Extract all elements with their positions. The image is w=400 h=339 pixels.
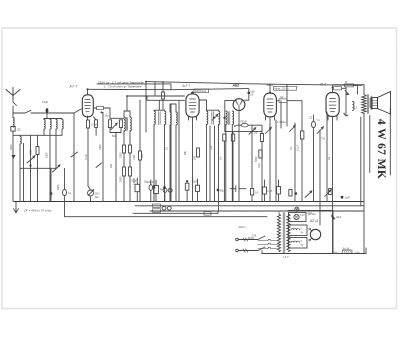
wire speaker leads — [371, 97, 372, 109]
resistor 50k — [120, 120, 123, 128]
wire branch x287 — [286, 85, 288, 127]
capacitor 50uF dot e — [217, 189, 220, 192]
capacitor IF1 c — [123, 167, 126, 176]
junction blob left — [11, 155, 15, 159]
capacitor IF1 b — [129, 145, 132, 153]
wire AL4 pins — [328, 116, 337, 202]
wire branch x74 — [73, 113, 75, 202]
detector coil c — [226, 111, 227, 202]
capacitor IF1 d — [129, 167, 132, 176]
trimmer cap C-t1 — [27, 156, 35, 163]
IF2 core — [159, 112, 160, 125]
wire primary top — [271, 211, 279, 249]
wire branch x252 — [251, 125, 253, 188]
capacitor box h — [289, 190, 292, 197]
svg-text:4V: 4V — [301, 245, 304, 247]
wire OT primary bottom B+ — [363, 114, 365, 254]
capacitor box right — [329, 189, 332, 195]
wire branch x210 — [209, 126, 211, 202]
wire branch x218 — [218, 125, 220, 212]
resistor heater b — [153, 209, 161, 212]
capacitor 500pF dot — [248, 92, 250, 94]
wire screen line top — [88, 89, 249, 90]
capacitor cylinder 1m — [63, 189, 67, 195]
resistor 240 branch — [197, 148, 200, 157]
svg-text:A F 7: A F 7 — [182, 84, 191, 88]
svg-text:3000: 3000 — [57, 184, 60, 190]
IF transformer 1 coil a — [124, 117, 125, 131]
terminal box left — [11, 127, 15, 132]
mains lead upper — [239, 239, 259, 241]
power transformer core — [283, 213, 285, 254]
wire power right side — [332, 211, 334, 254]
coil bank 1 — [44, 119, 45, 136]
wire branch x23 — [23, 143, 25, 201]
coil bank 3 — [56, 119, 57, 169]
label box 220x15mA — [194, 89, 209, 93]
resistor 100 on plate row — [97, 106, 104, 109]
svg-text:50µF: 50µF — [132, 180, 138, 183]
potentiometer 1,5 arrow — [249, 128, 256, 135]
svg-text:5000: 5000 — [255, 156, 258, 162]
choke Dr — [345, 84, 354, 87]
IF2 right coil b — [176, 112, 177, 202]
svg-text:1m: 1m — [68, 191, 72, 195]
trimmer tone — [317, 127, 323, 134]
IF transformer 3 coil a — [207, 111, 208, 202]
capacitor box 0,25 — [263, 187, 267, 194]
IF1 core — [127, 118, 128, 131]
resistor 0,5 — [109, 120, 112, 128]
capacitor box d — [185, 183, 189, 190]
resistor heater a — [153, 204, 161, 207]
wire branch x146 — [145, 82, 147, 132]
mains lead lower — [239, 250, 259, 252]
wire branch x320 — [319, 130, 321, 202]
wire coil row feed — [44, 113, 62, 119]
resistor under v1 b — [95, 120, 98, 128]
svg-text:AB2: AB2 — [232, 83, 240, 87]
potentiometer volume — [88, 190, 94, 196]
wire branch x346 — [345, 87, 347, 116]
capacitor horizontal f — [230, 186, 246, 192]
wire branch x327 — [326, 112, 328, 202]
svg-text:240: 240 — [194, 155, 197, 160]
label box Mess — [274, 86, 297, 90]
power transformer primary — [277, 214, 280, 252]
svg-text:ZF = 468 (x 73 kHz): ZF = 468 (x 73 kHz) — [23, 208, 51, 212]
capacitor anode V4 — [276, 100, 279, 102]
wire branch x214 — [214, 126, 216, 202]
switch mains b — [258, 247, 265, 251]
wire branch x281 — [280, 101, 282, 128]
coil bank 4 — [62, 119, 63, 136]
voltage selector taps — [258, 241, 268, 249]
wire bottom right corner — [365, 248, 367, 254]
svg-text:10µF: 10µF — [345, 197, 351, 200]
detector core — [228, 112, 229, 125]
fuse — [343, 250, 353, 254]
resistor x163 top — [162, 82, 164, 92]
svg-text:4,5 V: 4,5 V — [283, 256, 289, 259]
svg-text:125: 125 — [17, 129, 22, 132]
wire tuner horizontal — [13, 134, 62, 136]
tube V3 AB2 — [233, 99, 245, 111]
switch arm lower — [96, 163, 102, 168]
trimmer right V4 — [290, 125, 296, 131]
svg-text:1 · 17mA ohne gr. Tastenteile: 1 · 17mA ohne gr. Tastenteile — [104, 85, 142, 89]
svg-text:7,5k: 7,5k — [321, 138, 326, 141]
svg-text:500: 500 — [110, 163, 113, 168]
resistor 0,5 bottom — [251, 189, 254, 196]
wire plate V1 row — [94, 108, 111, 118]
IF transformer 3 coil b — [219, 111, 220, 125]
svg-text:2000: 2000 — [120, 176, 123, 182]
output transformer primary — [362, 95, 367, 114]
svg-text:50µF: 50µF — [192, 181, 198, 184]
wire branch x295 — [294, 123, 296, 202]
wire bus 2 — [135, 205, 364, 207]
speaker — [372, 92, 391, 115]
capacitor blocking dot — [50, 192, 53, 195]
wire selector down — [261, 251, 263, 254]
switch mains a — [258, 236, 265, 240]
svg-text:1500: 1500 — [133, 154, 136, 160]
tube V1 AF7 — [82, 95, 93, 117]
dial lamp — [295, 207, 299, 211]
wire heater mid line — [133, 211, 218, 213]
wire drop x155 — [154, 82, 156, 96]
svg-text:2000: 2000 — [120, 152, 123, 158]
IF transformer 2 coil a — [154, 111, 155, 186]
trimmer cap C-t2 — [53, 165, 60, 172]
svg-text:4µF: 4µF — [280, 96, 285, 99]
svg-text:S14: S14 — [252, 235, 257, 238]
resistor left column — [13, 118, 14, 128]
svg-text:AM2: AM2 — [266, 83, 274, 87]
tube V5 AL4 — [326, 93, 339, 117]
dial lamp pair on bus — [163, 188, 167, 192]
svg-text:15µF: 15µF — [42, 100, 49, 104]
svg-text:1000: 1000 — [99, 144, 102, 150]
capacitor box e — [196, 185, 200, 191]
wire branch x332 down — [332, 202, 334, 254]
output transformer core — [367, 95, 368, 114]
svg-text:4 W 67 MK: 4 W 67 MK — [375, 119, 388, 179]
capacitor cylinder c — [149, 185, 153, 191]
svg-text:7mA: 7mA — [84, 154, 88, 160]
wire IF1 tops — [124, 96, 130, 117]
resistor 5000 — [259, 150, 262, 158]
wire screen line top — [146, 82, 362, 86]
wire AVC branch — [170, 105, 172, 202]
wire branch x276 — [275, 120, 277, 202]
wire IF1 mids — [124, 131, 130, 167]
wire screen corner to V4 — [269, 84, 271, 92]
rule under note — [97, 84, 171, 90]
svg-text:3000: 3000 — [10, 144, 13, 150]
wire branch x320 down — [319, 202, 321, 226]
tube V2 AF7 — [186, 94, 199, 117]
capacitor cylinder x313 — [312, 121, 316, 127]
resistor x262 — [261, 134, 264, 142]
svg-text:220V~: 220V~ — [239, 225, 247, 229]
svg-text:AZ 11: AZ 11 — [309, 219, 318, 223]
wire heater bus — [65, 202, 268, 217]
resistor above AL4 — [334, 87, 342, 90]
wire antenna row — [13, 109, 81, 113]
resistor x233 — [231, 134, 234, 141]
svg-text:3µF: 3µF — [95, 196, 100, 199]
wire left column down — [12, 113, 14, 202]
IF2 right coil — [170, 112, 171, 202]
power transformer secondary — [287, 214, 290, 252]
diode top right — [332, 215, 335, 219]
svg-text:0,25: 0,25 — [258, 163, 261, 168]
wire branch x179 — [178, 100, 180, 201]
capacitor box g — [277, 187, 281, 195]
svg-text:AL4: AL4 — [319, 83, 326, 87]
svg-text:220×15mA: 220×15mA — [195, 90, 207, 93]
capacitor 10uF dot — [341, 196, 344, 199]
wire bus 3 — [150, 210, 364, 212]
wire main ground bus — [14, 201, 364, 203]
pilot lamp box — [289, 213, 307, 222]
svg-text:Dr.: Dr. — [345, 81, 348, 84]
svg-text:50µ: 50µ — [144, 181, 149, 184]
IF3 top bracket — [199, 100, 219, 110]
power box top line — [288, 210, 333, 212]
resistor branch x37 — [37, 135, 39, 201]
wire v2 cathode — [192, 117, 194, 201]
wire AL4 anode top — [333, 85, 365, 93]
coil bank 2 — [50, 119, 51, 202]
capacitor box b — [154, 186, 159, 194]
svg-text:Fu 2A: Fu 2A — [343, 247, 350, 250]
misc value labels — [30, 144, 332, 190]
svg-text:1M: 1M — [290, 147, 293, 150]
wire AB2 grid left — [225, 101, 234, 132]
wire mid tuner row — [20, 167, 56, 169]
tube V4 AM2 — [264, 93, 277, 117]
svg-text:A F 7: A F 7 — [69, 85, 78, 89]
wire top cap v1 — [87, 89, 89, 95]
detector coil d — [232, 111, 233, 125]
switch contact mid — [111, 123, 117, 129]
wire top cap v2 — [192, 92, 194, 94]
resistor 80k — [139, 151, 142, 160]
wire resistor pair feed — [110, 117, 124, 119]
svg-text:18µF: 18µF — [336, 216, 342, 219]
wire V4 pins — [266, 117, 275, 202]
svg-text:0,1µF: 0,1µF — [297, 144, 300, 151]
svg-text:0,3M: 0,3M — [91, 123, 97, 127]
ground symbol — [14, 202, 19, 213]
filament winding box 1 — [289, 225, 308, 236]
wire grid line to V2 — [127, 96, 185, 100]
output transformer secondary — [370, 97, 372, 109]
svg-text:1,5: 1,5 — [254, 132, 258, 135]
svg-text:100: 100 — [210, 145, 213, 150]
capacitor antenna series — [46, 108, 49, 113]
label frame left — [369, 116, 371, 173]
wire branch x30 — [30, 135, 32, 201]
svg-text:4V: 4V — [301, 233, 304, 235]
label frame right — [389, 108, 391, 175]
IF transformer 2 coil b — [165, 111, 166, 186]
resistor on heater line — [204, 212, 211, 216]
rectifier AZ11 — [310, 229, 320, 239]
svg-text:0,25: 0,25 — [268, 190, 273, 193]
svg-text:2000: 2000 — [46, 152, 49, 158]
jack hook — [344, 113, 348, 115]
svg-text:0,3A: 0,3A — [308, 212, 313, 215]
capacitor dots can2 — [153, 186, 156, 189]
coil L1 — [20, 135, 21, 201]
diode detector arrow — [345, 91, 349, 95]
trimmer bottom right — [305, 191, 312, 198]
svg-text:750pF: 750pF — [240, 120, 247, 123]
wire AB2 pins — [232, 110, 239, 201]
capacitor IF1 a — [123, 145, 126, 153]
wire v2 side pins — [189, 117, 197, 121]
wire branch x103 — [102, 112, 104, 201]
wave switch contact — [71, 152, 78, 157]
wire OT primary top — [363, 85, 365, 95]
wire v1 cathode — [87, 116, 90, 186]
svg-text:10µ: 10µ — [105, 115, 110, 118]
capacitor heater pair — [162, 206, 166, 210]
coil L2 — [353, 102, 355, 111]
IF transformer 1 coil b — [130, 117, 131, 131]
wire row2 AB2 — [225, 131, 262, 133]
junction dot — [213, 117, 215, 119]
IF3 core — [212, 112, 213, 125]
wire OT aux — [360, 117, 362, 206]
capacitor 0,1uF x302 — [301, 101, 303, 131]
capacitor 50uF box a — [135, 184, 140, 191]
svg-text:1500: 1500 — [30, 149, 33, 155]
trimmer left V4 — [266, 127, 272, 133]
filament winding box 2 — [289, 238, 308, 249]
svg-text:Mess: 2,5 V ~: Mess: 2,5 V ~ — [275, 87, 290, 90]
resistor under v1 — [87, 120, 90, 128]
trimmer IF3 — [212, 114, 218, 120]
power box bottom line — [262, 253, 366, 255]
wire antenna lead — [13, 96, 17, 113]
IF2 top bracket — [154, 100, 165, 110]
svg-text:50µF: 50µF — [220, 190, 226, 193]
resistor x224 — [223, 134, 226, 141]
capacitor 750pF — [237, 125, 263, 133]
svg-text:6,3V: 6,3V — [300, 215, 305, 217]
antenna — [6, 88, 20, 97]
